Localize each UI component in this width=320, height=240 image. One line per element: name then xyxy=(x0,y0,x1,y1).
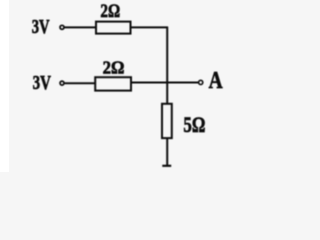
left white margin strip xyxy=(0,0,9,172)
ground bar xyxy=(162,165,171,167)
wire: vertical, corner down to R3 top (through node) xyxy=(166,27,168,104)
wire: top terminal to R1 xyxy=(65,26,97,28)
wire: R3 bottom to ground xyxy=(166,138,168,165)
terminal circle (top source) xyxy=(60,25,64,29)
wire: R1 to top-right corner xyxy=(131,26,169,28)
resistor R1 2ohm (top) xyxy=(96,22,131,34)
svg-text:3V: 3V xyxy=(32,17,50,38)
wire: middle terminal to R2 xyxy=(65,82,96,84)
svg-text:2Ω: 2Ω xyxy=(103,58,125,78)
svg-text:2Ω: 2Ω xyxy=(100,2,120,22)
svg-text:3V: 3V xyxy=(33,72,51,94)
resistor R2 2ohm (middle) xyxy=(95,77,131,90)
resistor R3 5ohm (vertical) xyxy=(162,104,172,138)
terminal circle (middle source) xyxy=(60,81,64,85)
wire: R2 to node A terminal xyxy=(131,82,199,84)
node A terminal circle xyxy=(199,80,203,84)
svg-text:A: A xyxy=(209,67,223,94)
svg-text:5Ω: 5Ω xyxy=(183,112,205,137)
